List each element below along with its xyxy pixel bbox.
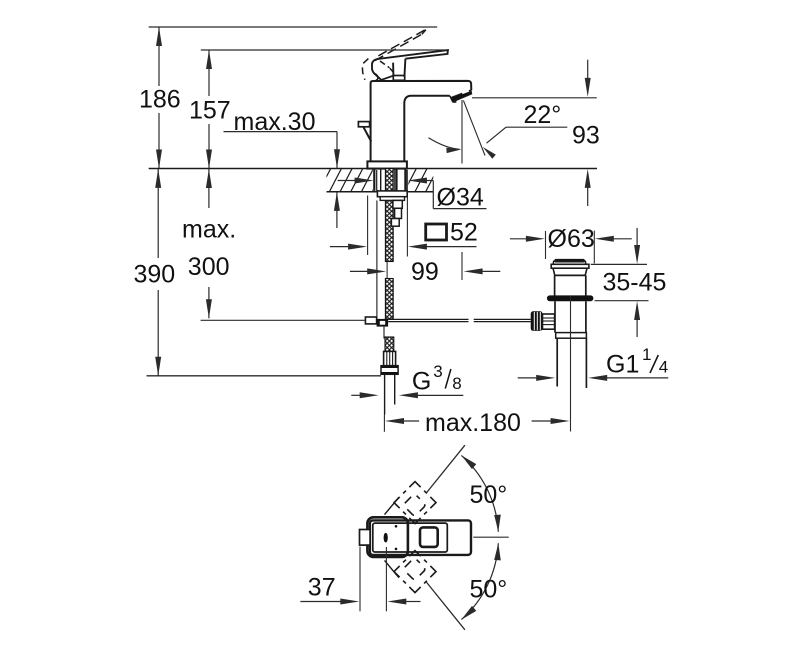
svg-text:157: 157 <box>189 97 231 125</box>
svg-text:99: 99 <box>411 258 439 286</box>
svg-text:390: 390 <box>134 261 176 289</box>
svg-text:G: G <box>412 368 431 396</box>
svg-text:8: 8 <box>452 374 461 393</box>
svg-text:G1: G1 <box>606 350 639 378</box>
svg-text:1: 1 <box>642 345 651 364</box>
svg-text:93: 93 <box>572 121 600 149</box>
svg-text:37: 37 <box>308 574 336 602</box>
svg-text:4: 4 <box>659 358 668 377</box>
svg-text:50°: 50° <box>470 576 508 604</box>
svg-text:max.180: max.180 <box>425 409 521 437</box>
svg-text:186: 186 <box>139 86 181 114</box>
svg-text:300: 300 <box>188 253 230 281</box>
svg-text:max.: max. <box>182 216 236 244</box>
svg-text:3: 3 <box>433 362 442 381</box>
svg-text:Ø63: Ø63 <box>548 225 595 253</box>
svg-text:52: 52 <box>450 218 478 246</box>
svg-text:22°: 22° <box>524 101 562 129</box>
svg-text:35-45: 35-45 <box>603 269 667 297</box>
svg-text:50°: 50° <box>470 481 508 509</box>
svg-text:Ø34: Ø34 <box>437 184 484 212</box>
